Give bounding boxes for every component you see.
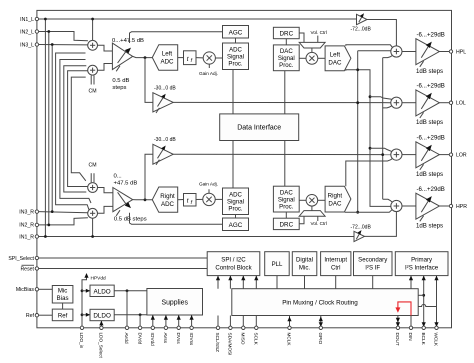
wire LOR mixer to amp [402, 154, 416, 156]
wire DVss to Supplies [178, 315, 180, 328]
pin WCLK [435, 326, 438, 329]
svg-text:Reset: Reset [20, 267, 34, 273]
wire tf to multiplier right [196, 198, 203, 200]
svg-text:IN3_L: IN3_L [20, 42, 34, 48]
svg-text:Vol. Ctrl: Vol. Ctrl [311, 30, 327, 35]
svg-text:-72...0dB: -72...0dB [351, 27, 372, 33]
pin MISO [242, 326, 245, 329]
wire DAC SP to multiplier right [299, 199, 306, 201]
svg-text:Mic: Mic [58, 288, 67, 295]
op-amp bottom bypass -72..0dB [354, 231, 365, 241]
wire IN2_L run [39, 32, 88, 41]
wire Primary to WCLK with hop [436, 276, 438, 328]
wire Mic Bias to Ref [62, 303, 64, 309]
wire DRC to DAC SP left [285, 39, 287, 45]
mixer LOL [391, 97, 402, 108]
vol control tick left [317, 36, 319, 43]
op-amp HPL driver [416, 39, 440, 65]
svg-text:1dB steps: 1dB steps [416, 223, 443, 230]
svg-text:HPL: HPL [456, 49, 466, 55]
svg-text:Signal: Signal [227, 199, 244, 206]
svg-text:0...+47.5 dB: 0...+47.5 dB [112, 38, 144, 44]
svg-text:Vol. Ctrl: Vol. Ctrl [311, 221, 327, 226]
svg-text:0.5 dB: 0.5 dB [112, 78, 129, 84]
svg-text:DAC: DAC [280, 48, 293, 55]
block Mic Bias [52, 286, 73, 304]
svg-text:Signal: Signal [227, 54, 244, 61]
svg-text:Left: Left [330, 52, 341, 59]
wire multiplier to ADC SP [215, 57, 222, 59]
wire Secondary to pinmux [372, 276, 374, 289]
wire SPI box to pinmux 1 [217, 276, 219, 289]
pin HPR [449, 204, 452, 207]
mixer HPR [391, 200, 402, 211]
wire mixerR-sig to PGA [98, 206, 113, 213]
multiplier gain adj left [203, 52, 215, 64]
wire MicBias pin to block [39, 288, 53, 290]
pin SCL/SSZ [216, 326, 219, 329]
op-amp top bypass -72..0dB [357, 14, 368, 24]
pin BCLK [422, 326, 425, 329]
wire DLDO out to Supplies [114, 314, 147, 316]
svg-text:CM: CM [89, 163, 97, 169]
svg-text:Proc.: Proc. [279, 62, 294, 69]
svg-text:IN1_L: IN1_L [20, 17, 34, 23]
junction BCLK/pinmux stub [422, 294, 425, 297]
wire pinmux to SCL pin [217, 316, 219, 328]
svg-text:GPIO: GPIO [318, 333, 323, 345]
svg-text:I²S IF: I²S IF [365, 265, 380, 272]
svg-text:CM: CM [89, 89, 97, 95]
svg-text:BCLK: BCLK [421, 333, 426, 346]
svg-text:SDA/MOSI: SDA/MOSI [228, 333, 233, 356]
svg-text:steps: steps [112, 85, 126, 91]
svg-text:ADC: ADC [229, 47, 242, 54]
wire right mix amp to LOR mixer [173, 153, 391, 155]
wire LOL mixer to amp [402, 102, 416, 104]
wire pinmux to MISO pin [242, 316, 244, 328]
wire right bundle vertical B [370, 97, 391, 207]
wire bundle vertical 1 (IN1_L cross) [44, 19, 46, 237]
svg-text:Secondary: Secondary [358, 257, 388, 264]
wire trapezoid to multiplier left [311, 48, 313, 52]
svg-text:Ctrl: Ctrl [331, 265, 340, 272]
wire mixerL-CM to PGA [98, 64, 113, 71]
pin Reset (active low) [35, 267, 38, 270]
pin SCLK [255, 326, 258, 329]
mixer left signal [88, 40, 98, 50]
wire into DLDO [82, 314, 90, 316]
wire bottom bypass amp to HPR mixer [365, 212, 397, 237]
svg-text:t: t [187, 198, 189, 205]
svg-text:AGC: AGC [229, 29, 243, 36]
svg-text:DLDO: DLDO [93, 313, 111, 320]
op-amp HPR driver [416, 193, 440, 219]
wire IN1_L drop to left mixer [92, 19, 94, 40]
wire stub B to LOL upper [370, 97, 392, 100]
block Primary I2S Interface [395, 252, 448, 276]
wire mixerL-sig to PGA [98, 45, 113, 51]
wire AVdd riser [126, 291, 128, 328]
block DRC left [273, 27, 299, 38]
pin DOUT [396, 326, 399, 329]
pin DVss [177, 326, 180, 329]
op-amp left mixer amp -30..0 dB [153, 93, 173, 112]
junction A/LOL line [356, 101, 359, 104]
mixer left CM [88, 65, 98, 75]
mixer right CM [88, 183, 98, 193]
wire pinmux to DIN pin [410, 316, 412, 328]
wire left mix amp to LOL mixer [173, 101, 391, 103]
pin IOVss [190, 326, 193, 329]
svg-text:SPI / I2C: SPI / I2C [221, 257, 246, 264]
wire Left DAC bottom feed [346, 70, 370, 97]
wire Left DAC top to HPL mixer [346, 45, 393, 48]
wire IOVdd to Supplies [152, 315, 154, 328]
wire bundle vertical 2 (IN2_L cross) [48, 32, 50, 225]
block SPI/I2C Control Block [207, 252, 260, 276]
wire AGC to ADC SP [235, 38, 237, 43]
mixer LOR [391, 149, 402, 160]
wire IN3_L run [39, 44, 88, 46]
pin SDA/MOSI [229, 326, 232, 329]
wire ADC to tf [178, 57, 184, 59]
wire Data Interface to DAC SP right [284, 141, 286, 187]
op-amp left MicPGA [112, 43, 132, 70]
wire Primary to pinmux [410, 276, 412, 289]
wire mixerR-CM to PGA [98, 188, 113, 193]
svg-text:-72...0dB: -72...0dB [351, 224, 372, 230]
wire right PGA to ADC [133, 199, 153, 201]
mixer HPL [391, 46, 402, 57]
pin IN1_L [35, 17, 38, 20]
svg-text:t: t [187, 56, 189, 63]
block ALDO [90, 285, 114, 296]
wire ALDO out to Supplies [114, 290, 147, 292]
wire bundle vertical 4 [56, 53, 89, 210]
svg-text:ADC: ADC [161, 201, 175, 208]
svg-text:IN2_R: IN2_R [19, 223, 34, 229]
block AGC left [223, 26, 249, 39]
svg-text:IN2_L: IN2_L [20, 29, 34, 35]
svg-text:LOL: LOL [456, 101, 466, 107]
vol control tick right [317, 216, 319, 221]
svg-text:DOUT: DOUT [395, 333, 400, 346]
op-amp right MicPGA [113, 188, 133, 212]
wire IN1_R rise to right mixer [92, 218, 94, 236]
wire HPR amp to pin [439, 205, 449, 207]
svg-text:LDO_in: LDO_in [79, 333, 84, 349]
pin MicBias [35, 288, 38, 291]
wire left PGA node down to mix amp [145, 58, 153, 103]
DAC right (Right DAC) [325, 186, 351, 212]
svg-text:Right: Right [328, 192, 343, 199]
svg-text:MISO: MISO [241, 333, 246, 345]
svg-text:PLL: PLL [272, 261, 283, 268]
wire AVss to Supplies [165, 315, 167, 328]
pin IOVdd [151, 326, 154, 329]
wire pinmux to GPIO pin [320, 316, 322, 328]
wire right PGA node up to mix amp [145, 154, 153, 200]
pin IN2_L [35, 30, 38, 33]
wire Digital Mic to pinmux [304, 276, 306, 289]
wire pinmux to SCLK pin [255, 316, 257, 328]
op-amp right mixer amp -30..0 dB [153, 144, 173, 164]
pin LOL [449, 101, 452, 104]
pin HPL [449, 50, 452, 53]
op-amp LOR driver [416, 142, 440, 168]
svg-text:Left: Left [162, 51, 173, 58]
block Data Interface [220, 114, 299, 141]
pin IN3_L [35, 43, 38, 46]
svg-text:ADC: ADC [229, 192, 242, 199]
block Secondary I2S IF [354, 252, 393, 276]
svg-text:Pin Muxing / Clock Routing: Pin Muxing / Clock Routing [282, 300, 358, 307]
svg-text:-30...0 dB: -30...0 dB [154, 137, 176, 143]
wire DAC SP to DRC right [285, 212, 287, 218]
wire bundle vertical 7 [68, 71, 88, 187]
wire multiplier to trapezoid right [311, 206, 313, 211]
ADC right (Right ADC) [152, 187, 177, 212]
wire DAC SP left to Data Interface [284, 71, 286, 114]
wire AGC gain control to left PGA [130, 32, 223, 43]
wire DRC to vol trapezoid right [299, 216, 304, 224]
wire LDO_in riser [82, 277, 87, 328]
block Ref [52, 309, 73, 321]
junction IN1_R/mixer [91, 235, 94, 238]
pin DIN [409, 326, 412, 329]
wire ADC SP to AGC right [235, 215, 237, 219]
wire DAC SP to multiplier left [299, 57, 306, 59]
multiplier vol right [306, 195, 318, 207]
junction LDO_in/DLDO [81, 313, 84, 316]
wire Right DAC bottom to HPR mixer [345, 209, 393, 212]
wire LDO_Select to DLDO [100, 321, 102, 328]
wire Primary to BCLK [423, 276, 425, 328]
wire AGC gain control to right PGA [130, 213, 223, 224]
svg-text:Bias: Bias [57, 295, 69, 302]
wire tf to multiplier [196, 57, 203, 59]
wire Data Interface to ADC SP right [232, 141, 234, 189]
svg-text:-6...+29dB: -6...+29dB [417, 186, 445, 193]
wire right bundle vertical A [358, 50, 391, 52]
wire stub C to LOL lower [383, 106, 392, 108]
svg-text:+47.5 dB: +47.5 dB [114, 181, 138, 187]
pin AVdd [125, 326, 128, 329]
block DRC right [273, 218, 299, 229]
block DLDO [90, 309, 114, 320]
svg-text:IN3_R: IN3_R [19, 209, 34, 215]
svg-text:Signal: Signal [278, 55, 295, 62]
CM tie symbol right [90, 173, 92, 182]
svg-text:0.5 dB steps: 0.5 dB steps [114, 216, 147, 222]
wire Reset to control block [39, 268, 208, 270]
wire stub C to HPL bottom [383, 56, 392, 58]
wire DRC to vol trapezoid left [299, 33, 304, 42]
wire bundle vertical 6 [64, 66, 87, 192]
pin LDO_in [80, 326, 83, 329]
pin MCLK [288, 326, 291, 329]
svg-text:ADC: ADC [160, 59, 174, 66]
wire bundle vertical 5 [60, 60, 91, 204]
wire stub C to HPR upper [383, 199, 392, 202]
wire pinmux to MCLK pin [289, 316, 291, 328]
wire IOVss to Supplies [191, 315, 193, 328]
wire bundle vertical 3 (IN3_L cross) [51, 45, 53, 212]
svg-text:MCLK: MCLK [287, 333, 292, 347]
wire multiplier to ADC SP right [215, 198, 222, 200]
svg-text:Signal: Signal [278, 196, 295, 203]
wire into ALDO [82, 290, 90, 292]
node right PGA out [144, 198, 147, 201]
wire IN1_L to bypass amp (top long run) [39, 18, 357, 20]
wire multiplier to Right DAC [318, 199, 325, 201]
wire top bypass amp to HPL mixer [367, 20, 396, 46]
svg-text:DVdd: DVdd [137, 333, 142, 345]
svg-text:-6...+29dB: -6...+29dB [417, 134, 445, 141]
block Interrupt Ctrl [321, 252, 351, 276]
wire LOR amp to pin [439, 154, 449, 156]
junction B at LOL stub [369, 95, 372, 98]
svg-text:Proc.: Proc. [228, 206, 243, 213]
pin IN3_R [35, 210, 38, 213]
junction A/DACR bottom line [356, 211, 359, 214]
wire PLL to pinmux [276, 276, 278, 289]
wire LOL amp to pin [439, 102, 449, 104]
filter tf right [184, 194, 197, 207]
block Supplies [147, 289, 203, 316]
wire SPI box to pinmux 3 [242, 276, 244, 289]
node left PGA out [144, 56, 147, 59]
junction C/LOR line [381, 153, 384, 156]
red loopback path [398, 302, 411, 316]
svg-text:LDO_Select: LDO_Select [99, 333, 104, 359]
ADC left (Left ADC) [152, 45, 177, 70]
pin SPI_Select [35, 256, 38, 259]
block AGC right [223, 218, 249, 231]
svg-text:IN1_R: IN1_R [19, 234, 34, 240]
junction IN1_L/mixer [91, 18, 94, 21]
block DAC Signal Proc right [273, 186, 299, 212]
svg-text:Supplies: Supplies [161, 299, 188, 306]
svg-text:Data Interface: Data Interface [237, 125, 281, 132]
svg-text:Right: Right [160, 193, 175, 200]
svg-text:ALDO: ALDO [94, 288, 111, 295]
pin GPIO [319, 326, 322, 329]
svg-text:IOVdd: IOVdd [150, 333, 155, 347]
svg-text:1dB steps: 1dB steps [416, 171, 443, 178]
wire Interrupt to pinmux [335, 276, 337, 289]
svg-text:Primary: Primary [411, 257, 433, 264]
svg-text:SPI_Select: SPI_Select [8, 256, 34, 262]
wire IN1_R to bypass amp (bottom long run) [39, 236, 354, 238]
wire ADC SP left to Data Interface [232, 70, 234, 114]
wire HPL amp to pin [439, 51, 449, 53]
svg-text:DRC: DRC [279, 221, 293, 228]
outer border [37, 10, 452, 327]
volume trapezoid left [299, 42, 325, 48]
block PLL [265, 252, 290, 276]
junction AVdd [126, 289, 129, 292]
wire pinmux to DOUT pin [397, 316, 399, 328]
wire ADC to tf right [178, 199, 184, 201]
block ADC Signal Proc left [223, 43, 249, 70]
wire Right DAC top riser to LOR bottom [346, 158, 393, 186]
svg-text:DVss: DVss [176, 333, 181, 345]
svg-text:DIN: DIN [408, 333, 413, 341]
CM tie symbol left [90, 75, 92, 84]
svg-text:-6...+29dB: -6...+29dB [417, 83, 445, 90]
wire pinmux to SDA pin [229, 316, 231, 328]
volume trapezoid right [299, 211, 325, 217]
wire Ref pin to block [39, 314, 53, 316]
pin LOR [449, 153, 452, 156]
op-amp LOL driver [416, 90, 440, 116]
svg-text:1dB steps: 1dB steps [416, 68, 443, 75]
junction DVdd [139, 313, 142, 316]
svg-text:Interrupt: Interrupt [324, 257, 347, 264]
wire HPR mixer to amp [402, 205, 416, 207]
DAC left (Left DAC) [325, 46, 351, 71]
wire right bundle vertical C [382, 58, 384, 200]
svg-text:Control Block: Control Block [215, 265, 252, 272]
wire IN2_R run [39, 218, 88, 225]
wire stub B to LOR upper [370, 148, 392, 151]
svg-text:I²S Interface: I²S Interface [405, 265, 439, 272]
pin IN2_R [35, 223, 38, 226]
wire SPI box to pinmux 4 [255, 276, 257, 289]
svg-text:Gain Adj.: Gain Adj. [199, 71, 218, 76]
svg-text:SCL/SSZ: SCL/SSZ [215, 333, 220, 353]
multiplier vol left [306, 52, 318, 64]
pin LDO_Select [100, 326, 103, 329]
svg-text:AVdd: AVdd [124, 333, 129, 345]
svg-text:DRC: DRC [279, 31, 293, 38]
svg-text:Ref: Ref [58, 312, 68, 319]
svg-text:IOVss: IOVss [189, 333, 194, 346]
svg-text:-6...+29dB: -6...+29dB [417, 31, 445, 38]
svg-text:1dB steps: 1dB steps [416, 119, 443, 126]
wire DVdd riser [139, 315, 141, 328]
svg-text:-30...0 dB: -30...0 dB [154, 86, 176, 92]
block ADC Signal Proc right [223, 188, 249, 215]
junction B at LOR stub [369, 147, 372, 150]
svg-text:DAC: DAC [280, 189, 293, 196]
svg-text:AGC: AGC [229, 222, 243, 229]
svg-text:DAC: DAC [328, 60, 342, 67]
svg-text:Proc.: Proc. [279, 203, 294, 210]
pin DVdd [138, 326, 141, 329]
svg-text:Proc.: Proc. [228, 61, 243, 68]
block DAC Signal Proc left [273, 45, 299, 71]
svg-text:AVss: AVss [163, 333, 168, 344]
svg-text:DAC: DAC [328, 200, 342, 207]
svg-text:MicBias: MicBias [16, 287, 35, 293]
mixer right signal [88, 208, 98, 218]
wire HPL mixer to amp [402, 51, 416, 53]
svg-text:SCLK: SCLK [254, 333, 259, 346]
svg-text:Ref: Ref [26, 313, 35, 319]
junction LDO_in/ALDO [81, 289, 84, 292]
wire SPI_Select to control block [39, 257, 208, 259]
filter tf left [184, 51, 197, 65]
wire IN3_R run [39, 212, 88, 213]
wire multiplier to Left DAC [318, 57, 325, 59]
wire left PGA to ADC [133, 56, 153, 57]
svg-text:HPR: HPR [456, 204, 467, 210]
wire bundle vertical 8 [71, 77, 86, 181]
pin IN1_R [35, 235, 38, 238]
